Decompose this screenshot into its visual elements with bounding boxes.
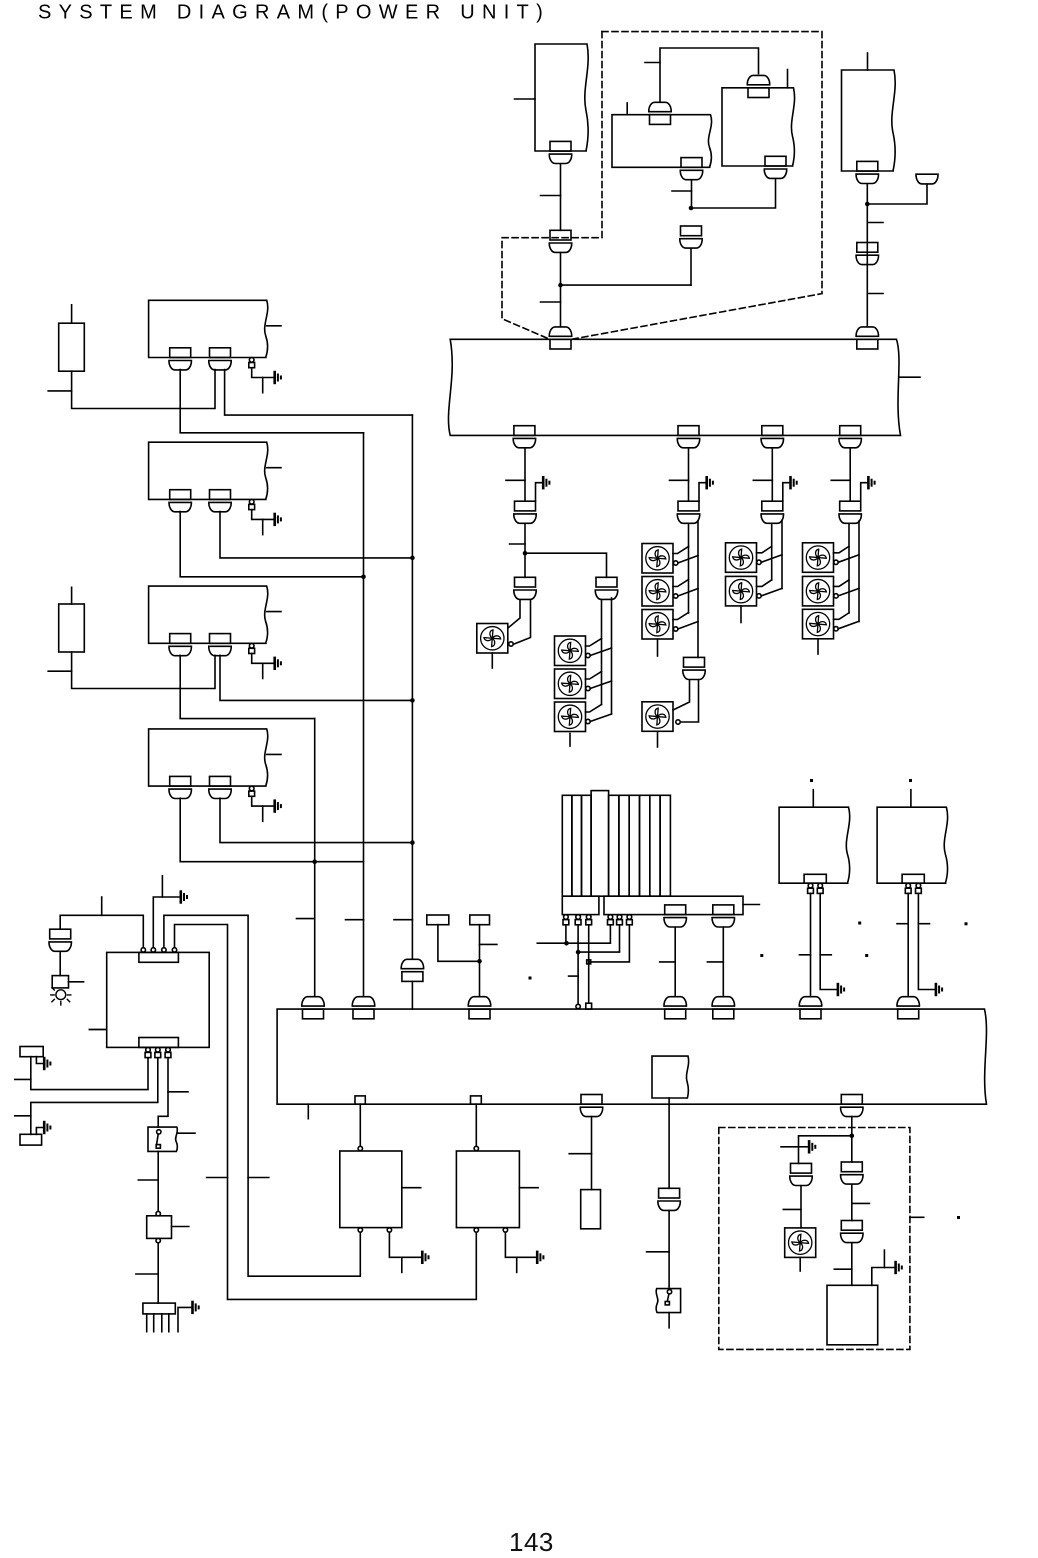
wire M1 ground: [389, 1232, 420, 1257]
board box PWB4: [149, 729, 268, 786]
ground: [275, 514, 281, 525]
fan tap: [590, 681, 611, 689]
tick: [799, 954, 810, 956]
ground stub: [516, 1257, 518, 1272]
connector CN14 on bus bottom: [677, 426, 699, 448]
tick: [510, 543, 526, 545]
tick: [867, 293, 883, 295]
wire R1 to bus2: [810, 894, 812, 996]
wire PWB1-a: [180, 370, 363, 433]
connector CN27 on bus2 top: [664, 997, 686, 1019]
plug R1-1: [808, 883, 814, 893]
dashed unit outline 2: [719, 1128, 910, 1350]
tick: [834, 1268, 852, 1270]
ground: [809, 1141, 815, 1152]
wire pin2 ground: [153, 897, 179, 948]
bus wire net-3: [314, 719, 316, 996]
stub A top: [626, 103, 628, 115]
terminal M1-a: [358, 1228, 362, 1232]
ground: [44, 1122, 50, 1133]
wire R-a to PWB1: [72, 370, 215, 409]
terminal M1-b: [387, 1228, 391, 1232]
fan FAN4: [642, 702, 673, 732]
tick: [138, 1179, 158, 1181]
wire RL1 down: [668, 1098, 670, 1188]
fan tap: [586, 639, 602, 647]
wire A down: [691, 180, 693, 208]
fan tap: [673, 580, 689, 587]
header block H2: [604, 896, 743, 914]
connector pair CN23: [49, 929, 71, 951]
junction: [361, 575, 366, 580]
fan terminal: [674, 627, 678, 631]
wire to FAN7: [800, 1186, 802, 1228]
wire bus to pair: [771, 448, 773, 501]
ground lead: [799, 1146, 808, 1148]
wire plugB: [31, 1058, 158, 1134]
wire S1 down: [157, 1151, 159, 1211]
wire R-b to PWB3: [72, 652, 215, 689]
connector PWB1-CN-b: [209, 348, 231, 370]
stub right: [267, 611, 281, 613]
wire TB2 to bus2: [479, 925, 481, 996]
link connector LK2: [471, 1096, 482, 1104]
terminal block TB1: [427, 915, 449, 925]
fan terminal: [674, 594, 678, 598]
ground lead: [252, 796, 274, 806]
connector CN29 on bus2 top: [799, 997, 821, 1019]
stub M2 right: [519, 1187, 538, 1189]
svg-text:SYSTEM DIAGRAM(POWER UNIT): SYSTEM DIAGRAM(POWER UNIT): [38, 2, 550, 24]
connector pair CN31: [658, 1188, 680, 1210]
control unit box: [107, 952, 210, 1047]
fan tap: [757, 546, 772, 553]
stub R-b top: [71, 587, 73, 604]
ground: [275, 658, 281, 669]
component box K1: [52, 976, 68, 988]
connector pair CN8 inline: [680, 226, 702, 248]
fan chain wire b: [611, 598, 613, 714]
junction: [410, 698, 415, 703]
ground lead: [36, 1128, 42, 1135]
fan tap: [590, 714, 611, 722]
wire link-2b: [578, 925, 619, 952]
fan tap: [838, 588, 859, 596]
ground lead: [36, 1057, 42, 1064]
board box PWB3: [149, 586, 268, 643]
fan FAN2c: [555, 702, 586, 732]
connector CN15 on bus bottom: [761, 426, 783, 448]
ground: [275, 372, 281, 383]
wire to PS box: [851, 1243, 853, 1286]
pin ctrl-top-153.3: [151, 948, 155, 952]
mark: [965, 922, 968, 925]
wire branch left: [799, 1136, 852, 1164]
connector CN16 on bus bottom: [839, 426, 861, 448]
wire to bus: [560, 253, 562, 327]
terminal: [156, 1211, 160, 1215]
connector CN13 on bus bottom: [513, 426, 535, 448]
ground: [707, 477, 713, 488]
link connector LK1: [355, 1096, 365, 1104]
wire pin4 to MOTOR2: [175, 925, 477, 1300]
tick: [48, 390, 71, 392]
connector CN32 on bus2 bottom: [580, 1095, 602, 1117]
tick: [852, 1202, 870, 1204]
fan FAN2b: [555, 669, 586, 699]
motor unit M2: [456, 1151, 519, 1228]
wire down: [157, 1243, 159, 1303]
wire PWB3-b: [220, 655, 412, 700]
fan tap: [586, 672, 602, 680]
pin ctrl-top-143.3: [141, 948, 145, 952]
fan tap: [678, 589, 698, 597]
junction: [576, 950, 581, 955]
junction: [312, 859, 317, 864]
tick: [783, 1208, 801, 1210]
wire: [668, 1211, 670, 1289]
junction square: [587, 960, 591, 964]
plug PWB2-p: [249, 500, 255, 510]
stub K1 right: [69, 981, 84, 983]
plug H1-578.1: [575, 915, 581, 925]
connector CN3 on power bus top: [549, 327, 571, 349]
ground stub: [262, 663, 264, 678]
wire R1 ground: [820, 894, 836, 990]
module box T1: [535, 44, 588, 151]
module box T4: [842, 70, 896, 171]
stub up: [161, 876, 163, 897]
component R-c: [581, 1190, 601, 1229]
connector PWB3-CN-b: [209, 634, 231, 656]
plug PWB3-p: [249, 643, 255, 653]
wire bus to pair: [688, 448, 690, 501]
fan terminal: [586, 719, 590, 723]
fan chain wire a: [601, 600, 603, 705]
wire TB1: [438, 925, 480, 962]
fan tap: [678, 556, 698, 564]
plug R2-2: [916, 883, 922, 893]
fan FAN2a: [555, 636, 586, 666]
connector header top: [139, 952, 179, 962]
ground: [543, 477, 549, 488]
fan feed: [514, 600, 530, 644]
connector CN25 on bus2 top: [352, 997, 374, 1019]
wire PWB3-a: [180, 655, 315, 718]
terminal: [474, 1146, 478, 1150]
stub right: [267, 325, 281, 327]
connector CN5 on B top: [747, 75, 769, 97]
connector dome CN10: [916, 174, 938, 184]
ground branch: [536, 483, 543, 502]
wire link-3: [588, 925, 590, 1003]
svg-text:143: 143: [509, 1527, 554, 1557]
wire to lamp unit: [59, 952, 61, 976]
fan tap: [757, 580, 772, 587]
tick: [569, 1153, 591, 1155]
fan tap: [834, 546, 850, 553]
junction: [523, 551, 528, 556]
connector pair CN17: [514, 577, 536, 599]
wire bus to pair: [849, 448, 851, 501]
wire PWB1-b: [225, 370, 413, 416]
tick: [541, 195, 561, 197]
plug PWB4-p: [249, 786, 255, 796]
connector header R1: [804, 874, 826, 883]
wire: [565, 925, 567, 943]
dashed unit outline: [502, 32, 822, 339]
tick: [48, 670, 71, 672]
terminal: [156, 1238, 160, 1242]
fan tap: [834, 613, 850, 620]
board box PWB2: [149, 442, 268, 499]
fan tap: [586, 705, 602, 713]
plug ctrl-bot-168: [165, 1048, 171, 1058]
stub right: [172, 1226, 189, 1228]
fan FAN6b: [803, 576, 834, 606]
junction: [410, 556, 415, 561]
plug R2-1: [905, 883, 911, 893]
connector CN21 under H2: [664, 905, 686, 927]
fan tap: [673, 547, 689, 554]
wire PWB2-b: [220, 512, 412, 558]
tick: [831, 479, 850, 481]
ground: [275, 801, 281, 812]
connector CN22 under H2: [712, 905, 734, 927]
fan FAN6a: [803, 543, 834, 573]
ground: [537, 1252, 543, 1263]
stub right: [267, 753, 281, 755]
plug R1-2: [817, 883, 823, 893]
connector pair CN35: [841, 1162, 863, 1184]
wire T4 to bus: [866, 184, 868, 327]
tick: [647, 1251, 670, 1253]
fan terminal: [586, 653, 590, 657]
ground branch: [699, 483, 706, 502]
plug ctrl-bot-148: [145, 1048, 151, 1058]
board box PWB1: [149, 300, 268, 357]
switch lever: [157, 1134, 159, 1144]
ground branch: [783, 483, 790, 502]
wire to MOTOR1: [359, 1104, 361, 1146]
fan terminal: [757, 594, 761, 598]
connector pair CN11 inline: [856, 243, 878, 265]
ground stub: [262, 806, 264, 821]
prong: [161, 1314, 163, 1332]
wire plugC to switch: [158, 1058, 168, 1127]
wire branch right: [525, 553, 607, 577]
stub bus right: [899, 376, 920, 378]
fan chain wire b: [781, 521, 783, 589]
junction: [558, 283, 563, 288]
tick: [207, 1177, 228, 1179]
ground stub: [262, 378, 264, 393]
tick: [346, 919, 364, 921]
connector pair CN20 inline reversed: [401, 959, 423, 981]
ground lead: [252, 368, 274, 378]
fan tap: [673, 613, 689, 620]
wire CN10 to node: [867, 184, 927, 204]
module box B: [722, 88, 795, 166]
stub under FAN1: [491, 653, 493, 668]
tick: [15, 1078, 31, 1080]
mark: [760, 954, 763, 957]
terminal square on bus2: [586, 1003, 592, 1009]
wire: [851, 1184, 853, 1220]
wire B down to node: [691, 179, 776, 208]
connector PWB2-CN-b: [209, 490, 231, 512]
plug H2-619.5: [617, 915, 623, 925]
ground: [44, 1058, 50, 1069]
tick: [541, 301, 561, 303]
bus wire net-1: [363, 433, 365, 996]
switch terminal: [667, 1290, 671, 1294]
fan terminal: [834, 594, 838, 598]
fan terminal: [676, 720, 680, 724]
connector pair CN2 inline: [549, 230, 571, 252]
connector CN12 on power bus top: [856, 327, 878, 349]
tick: [670, 479, 689, 481]
connector pair inline: [839, 501, 861, 523]
stub under FAN6c: [817, 639, 819, 654]
fan feed: [673, 680, 690, 710]
wire to MOTOR2: [475, 1104, 477, 1146]
terminal block TB2: [470, 915, 490, 925]
fan tap: [834, 580, 850, 587]
bus wire net-2: [411, 415, 413, 958]
wire pin3 to MOTOR1: [164, 915, 360, 1276]
power unit bus board: [448, 339, 900, 435]
tick: [480, 943, 497, 945]
tick: [297, 918, 315, 920]
terminal: [358, 1146, 362, 1150]
connector PWB4-CN-b: [209, 776, 231, 798]
tick: [897, 923, 908, 925]
tick: [248, 1177, 269, 1179]
ground: [896, 1262, 902, 1273]
wire link-3b: [589, 925, 630, 962]
stub right: [267, 467, 281, 469]
wire PWB2-a: [180, 512, 363, 577]
tick: [645, 62, 660, 64]
mark: [529, 977, 532, 980]
component R-a: [59, 323, 85, 371]
plug H2-629.4: [627, 915, 633, 925]
wire T1 down: [560, 164, 562, 230]
connector CN4 on A top: [649, 102, 671, 124]
stub ctrl left: [89, 1029, 106, 1031]
tick: [569, 975, 579, 977]
connector CN26 on bus2 top: [468, 997, 490, 1019]
wire PWB4-b: [220, 798, 412, 842]
wire to bus2: [411, 981, 413, 1009]
fan feed: [680, 680, 698, 722]
fan FAN5a: [726, 543, 757, 573]
fan tap: [838, 555, 859, 563]
ground: [193, 1302, 199, 1313]
ground stub: [401, 1257, 403, 1272]
tick: [394, 919, 412, 921]
pin ctrl-top-174.5: [172, 948, 176, 952]
fan chain wire b: [858, 521, 860, 622]
plug H1-588.7: [586, 915, 592, 925]
fan tap: [590, 648, 611, 656]
connector CN7 on B bottom: [764, 156, 786, 178]
fan tap: [761, 588, 782, 596]
wire link-2: [577, 925, 579, 1004]
header block H1: [562, 896, 599, 914]
fan terminal: [674, 561, 678, 565]
pin ctrl-top-163.9: [162, 948, 166, 952]
fan feed: [508, 600, 520, 628]
terminal on bus2: [576, 1004, 580, 1008]
plug H2-610.4: [608, 915, 614, 925]
fan tap: [678, 622, 698, 630]
mark: [858, 922, 861, 925]
fan FAN3b: [642, 577, 673, 607]
switch terminal: [157, 1130, 161, 1134]
fan FAN7: [785, 1228, 816, 1258]
prong: [153, 1314, 155, 1332]
fan FAN6c: [803, 609, 834, 639]
fan tap: [838, 621, 859, 629]
fan terminal: [834, 560, 838, 564]
wire CN32 down: [591, 1117, 593, 1190]
switch S1: [148, 1127, 177, 1151]
terminal M2-b: [503, 1228, 507, 1232]
tick: [781, 1146, 799, 1148]
tick: [136, 1273, 158, 1275]
connector pair CN19: [683, 657, 705, 679]
tick: [867, 222, 883, 224]
stub under FAN3c: [657, 639, 659, 656]
connector PWB1-CN-a: [169, 348, 191, 370]
wire PWB4-a: [180, 798, 363, 862]
ground branch: [861, 483, 868, 502]
stub up: [883, 1250, 885, 1267]
fan FAN3c: [642, 610, 673, 640]
lamp L1: [51, 988, 71, 1005]
stub M1 right: [402, 1187, 421, 1189]
fan terminal: [509, 642, 513, 646]
tick: [506, 479, 525, 481]
wire: [524, 524, 526, 578]
stub S2 down: [668, 1313, 670, 1328]
stub B top: [787, 70, 789, 88]
stub up: [101, 897, 103, 915]
wire CN33 down: [851, 1117, 853, 1136]
wire pin1: [60, 915, 143, 947]
component F1 fuse box: [147, 1216, 172, 1239]
tick: [753, 479, 772, 481]
stub: [89, 1029, 106, 1031]
stub under FAN7: [799, 1257, 801, 1271]
plug H1-565.9: [563, 915, 569, 925]
module box R2: [877, 807, 948, 883]
connector header R2: [902, 874, 924, 883]
motor unit M1: [340, 1151, 402, 1228]
fan terminal: [757, 560, 761, 564]
connector pair inline: [761, 501, 783, 523]
AC inlet connector: [143, 1303, 175, 1314]
ground stub: [262, 519, 264, 534]
mark: [810, 779, 813, 782]
wire bus to pair: [524, 448, 526, 501]
fan FAN3a: [642, 544, 673, 574]
connector CN33 on bus2 bottom: [841, 1095, 863, 1117]
ground lead: [178, 1307, 191, 1331]
relay box RL1: [652, 1056, 689, 1098]
